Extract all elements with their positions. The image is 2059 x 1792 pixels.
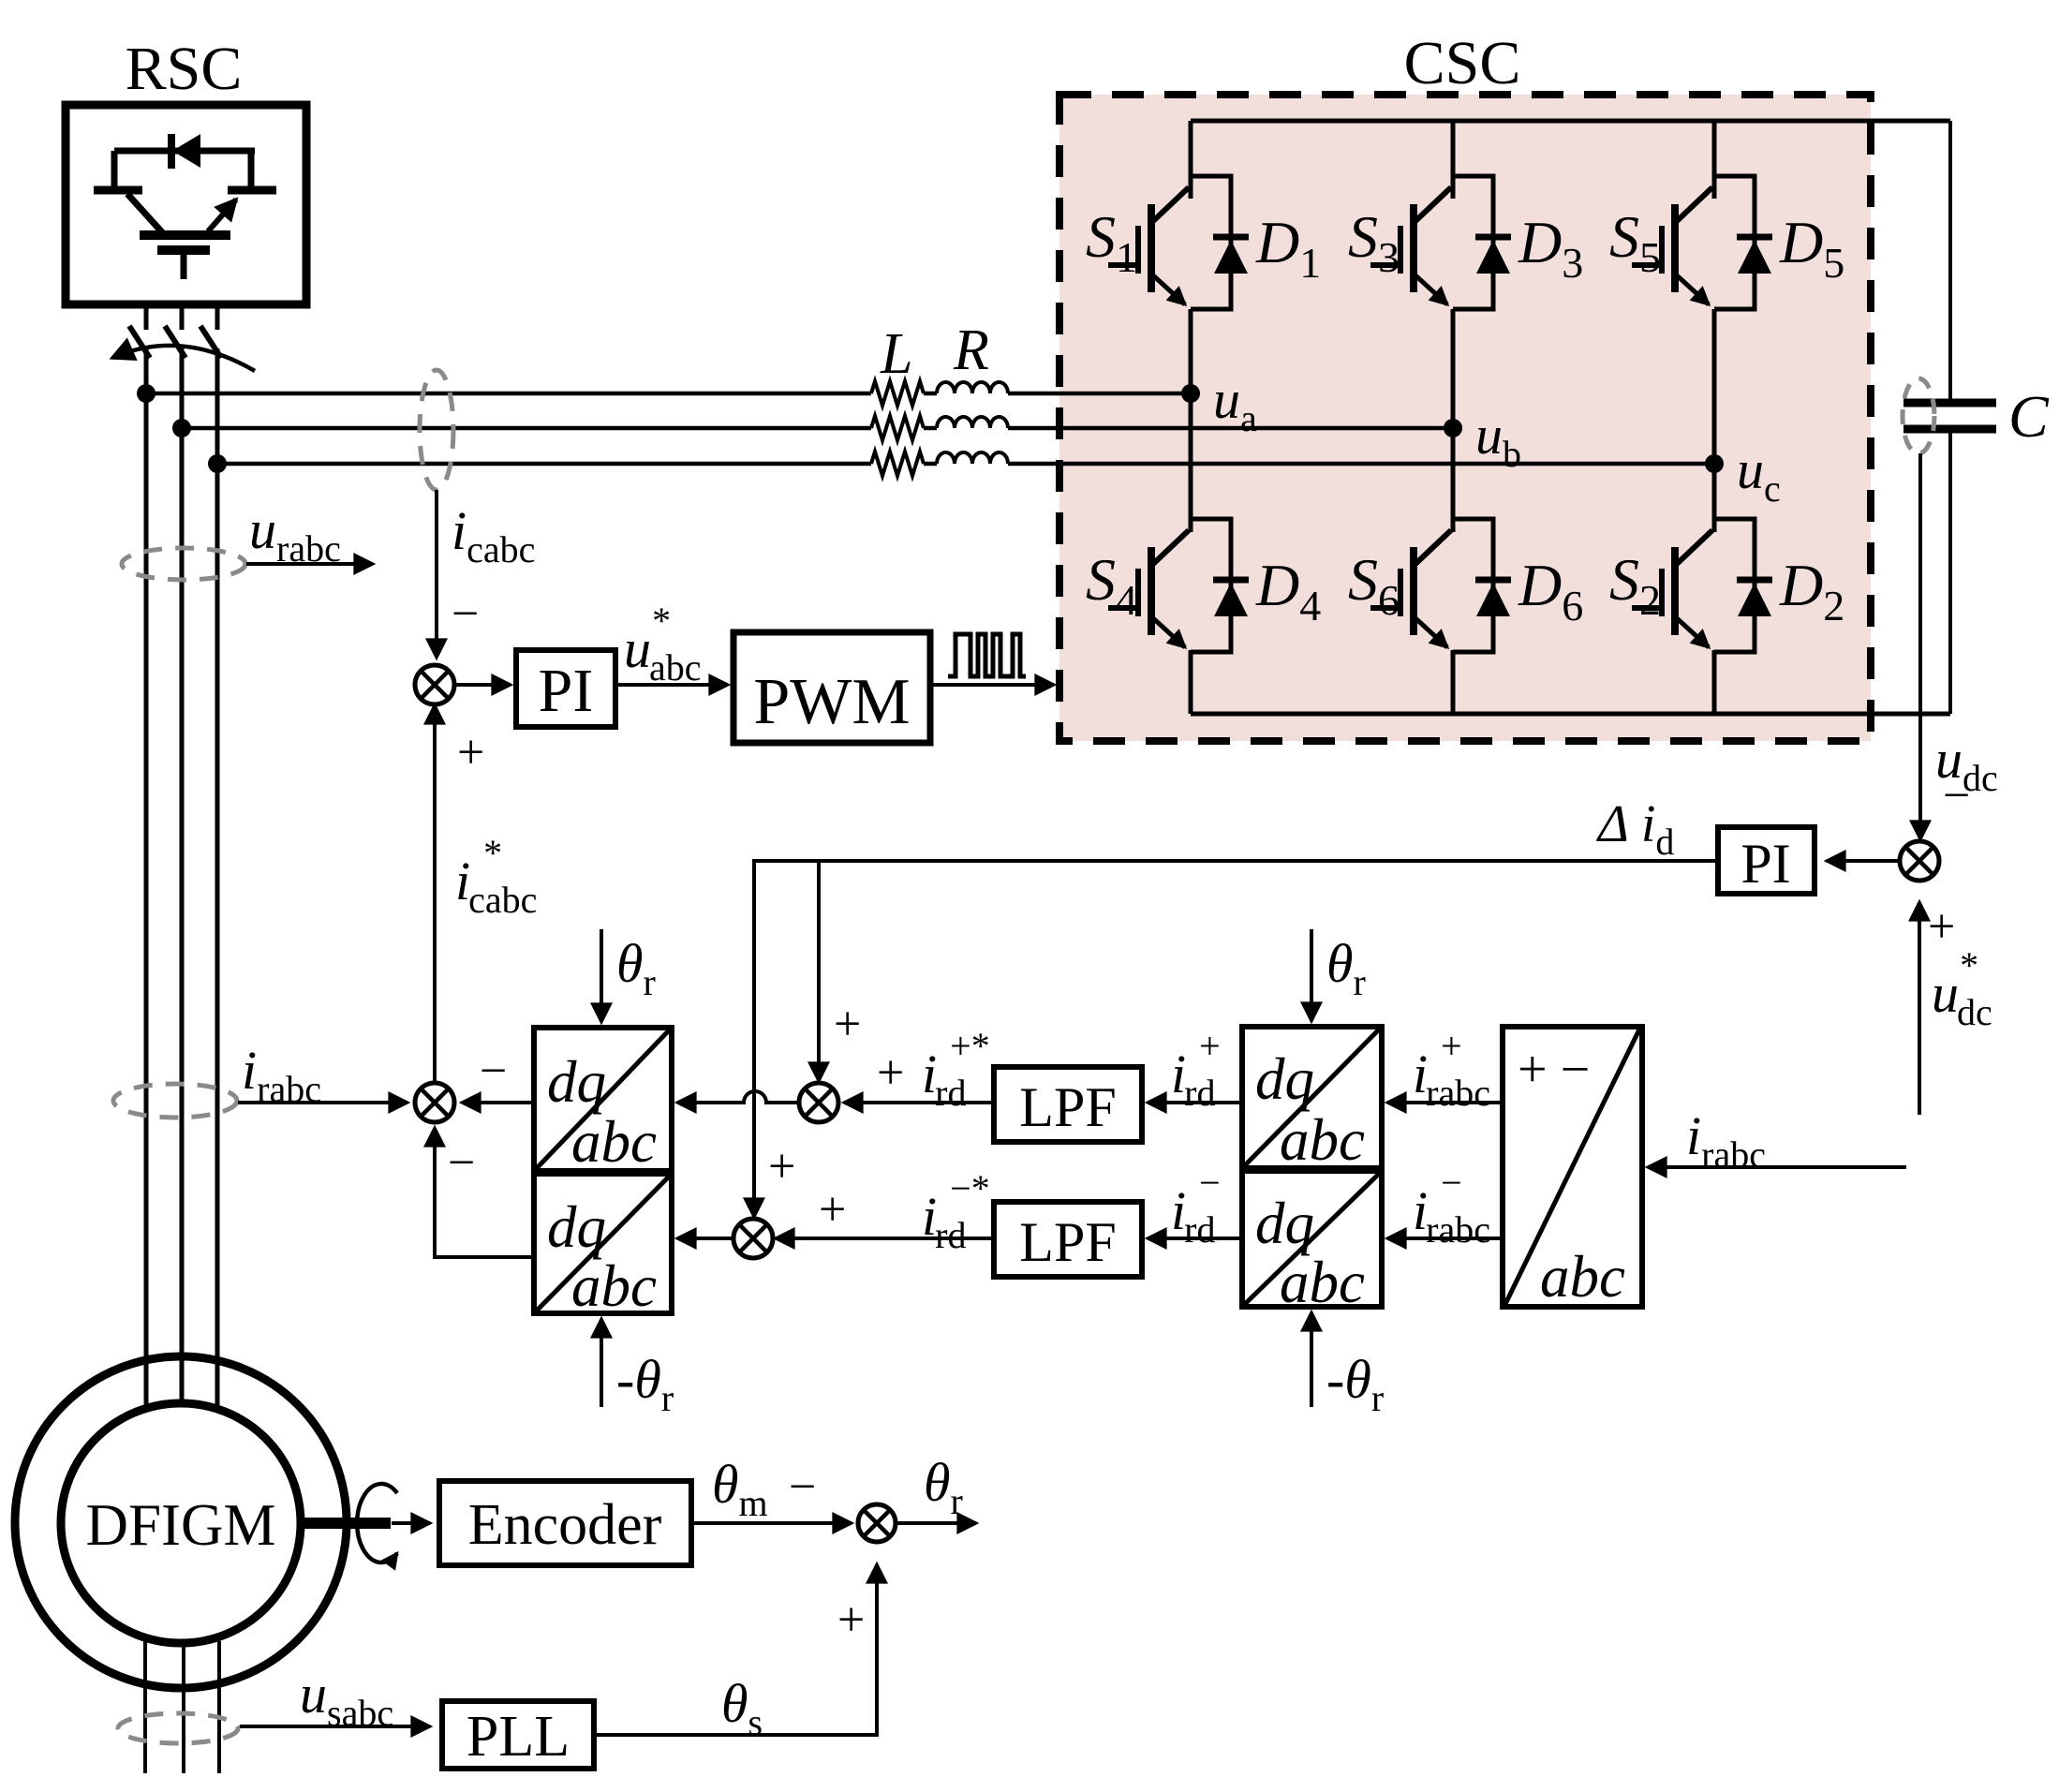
svg-text:*: * [483,832,502,874]
svg-text:+: + [877,1046,904,1100]
PWM box [733,632,930,743]
sequence separation block +-/abc [1503,1027,1642,1307]
node u_b [1444,419,1462,437]
wire u*_dc up into summing junction [1918,902,1921,1115]
wire i*_cabc rising to summing junction [433,705,437,1083]
svg-text:+ −: + − [1518,1041,1590,1099]
wire PWM to CSC [930,683,1054,687]
svg-text:+: + [819,1183,846,1237]
theta_r input arrow (left stack) [600,929,603,1022]
freewheeling diode D2 [1714,519,1772,652]
summing junction rotor current [415,1083,454,1122]
svg-text:L: L [880,322,912,386]
wire theta_r output [896,1521,976,1525]
svg-text:−: − [452,587,479,641]
current sensor i_cabc (dashed ellipse) [420,370,453,490]
wire phase c with inductor L and resistor R [217,462,871,467]
LPF box (negative) [994,1202,1142,1277]
svg-text:dq: dq [547,1049,606,1115]
LPF box (positive) [994,1067,1142,1142]
svg-text:−: − [1943,769,1970,822]
-theta_r input arrow (right stack) [1310,1312,1313,1407]
freewheeling diode D1 [1191,176,1249,309]
svg-text:DFIGM: DFIGM [85,1492,275,1558]
Encoder box [439,1481,691,1565]
svg-text:dq: dq [1255,1191,1314,1256]
IGBT S5 [1632,187,1712,304]
wire DC link right branch [1948,121,1952,403]
svg-text:abc: abc [1280,1107,1365,1173]
PI controller box (dc loop) [1718,827,1815,894]
svg-text:abc: abc [571,1253,657,1319]
node phase b junction [172,419,191,437]
stator wires below machine [143,1641,147,1773]
svg-text:−: − [480,1044,507,1098]
svg-text:RSC: RSC [126,35,243,103]
dq/abc block (sequence decompose, +) [1242,1027,1382,1168]
svg-text:−*: −* [950,1167,990,1209]
wire dq-right1 to LPF1 [1148,1101,1242,1104]
IGBT S1 [1108,187,1189,304]
wire rotor phase b (vertical) [180,304,185,330]
summing junction negative-seq reference [733,1219,773,1258]
voltage sensor u_sabc (dashed ellipse) [118,1713,238,1743]
voltage sensor u_dc (dashed ellipse) [1903,378,1934,453]
summing junction theta_r [858,1504,896,1542]
svg-text:dq: dq [1255,1046,1314,1112]
svg-text:−: − [1441,1162,1462,1204]
wire shaft to encoder [392,1521,430,1525]
converter leg c vertical [1712,121,1717,199]
svg-text:CSC: CSC [1404,29,1521,97]
PI controller box (current loop) [516,650,615,727]
wire dq2 output loops to left sum [435,1128,534,1257]
svg-text:abc: abc [1280,1250,1365,1315]
slip-ring hatch marks [129,326,150,358]
svg-text:+: + [457,726,484,779]
IGBT S2 [1632,530,1712,647]
wire LPF2 to neg sum [776,1237,994,1240]
svg-text:+: + [837,1593,865,1647]
wire i_rabc to left summing junction [238,1101,407,1104]
voltage sensor u_rabc (dashed ellipse) [122,548,245,580]
wire neg sum to dq2 [677,1237,733,1240]
node u_c [1705,454,1724,473]
svg-text:PLL: PLL [467,1705,570,1769]
wire sum to PI [454,683,511,687]
node phase c junction [208,454,227,473]
DC top bus [1191,119,1950,124]
wire dq-right2 to LPF2 [1148,1237,1242,1240]
IGBT S4 [1108,530,1189,647]
wire +-abc to dq-right2 [1387,1237,1503,1240]
gate pulse symbol [948,634,1026,676]
wire pos sum to dq1 with hop [677,1091,799,1103]
wire delta i_d branch to positive-seq sum [817,861,821,1081]
theta_r input arrow (right stack) [1310,929,1313,1021]
svg-text:abc: abc [1540,1244,1625,1310]
summing junction current control [415,665,454,704]
svg-text:*: * [1960,944,1978,986]
dq/abc block (sequence decompose, -) [1242,1171,1382,1307]
capacitor C [1903,399,1996,407]
svg-text:PI: PI [1741,833,1790,895]
wire phase a with inductor L and resistor R [146,392,871,396]
wire sum to PI (dc loop) [1827,859,1900,863]
converter leg b vertical [1451,121,1456,199]
svg-text:dq: dq [547,1194,606,1260]
PLL box [442,1701,594,1769]
svg-text:LPF: LPF [1019,1211,1116,1273]
freewheeling diode D4 [1191,519,1249,652]
node u_a [1181,384,1200,403]
svg-text:abc: abc [571,1109,657,1175]
node phase a junction [137,384,156,403]
arrow u_rabc [246,562,373,566]
shaft [301,1518,391,1529]
svg-text:+: + [768,1140,795,1193]
freewheeling diode D6 [1453,519,1511,652]
wire encoder theta_m to sum [691,1521,852,1525]
svg-text:*: * [652,600,671,642]
wire +-abc to dq-right1 [1387,1101,1503,1104]
wire i_rabc into +-abc block [1648,1165,1906,1169]
IGBT S6 [1370,530,1451,647]
svg-text:PWM: PWM [753,666,910,738]
svg-text:+*: +* [950,1025,990,1067]
rotation arrow over rotor wires [112,346,255,371]
wire LPF1 to pos sum [844,1101,994,1104]
summing junction positive-seq reference [799,1083,838,1122]
svg-text:+: + [834,998,861,1051]
-theta_r input arrow (left stack) [600,1319,603,1407]
svg-text:LPF: LPF [1019,1076,1116,1138]
svg-text:−: − [1199,1162,1221,1204]
wire theta_s from PLL to sum [594,1564,877,1735]
freewheeling diode D5 [1714,176,1772,309]
svg-text:+: + [1928,900,1955,954]
DFIGM stator circle [15,1356,347,1688]
wire rotor phase a (vertical) [144,304,149,330]
svg-text:C: C [2008,383,2050,450]
IGBT S3 [1370,187,1451,304]
svg-text:Encoder: Encoder [468,1493,662,1557]
freewheeling diode D3 [1453,176,1511,309]
thyristor switch inside RSC [94,190,276,279]
summing junction DC voltage [1900,841,1939,881]
DC bottom bus [1191,712,1950,717]
wire dq1 output to left sum [462,1101,534,1104]
diode inside RSC [114,134,255,190]
rotation symbol on shaft [357,1484,397,1562]
DFIGM rotor circle [61,1403,301,1643]
current sensor i_rabc (dashed ellipse) [113,1084,237,1118]
wire u_sabc to PLL [240,1725,430,1728]
wire phase b with inductor L and resistor R [182,426,871,431]
wire rotor phase c (vertical) [215,304,220,330]
svg-text:−: − [448,1136,475,1190]
converter leg a vertical [1189,121,1193,199]
dq/abc transform block (negative, -theta_r) [534,1174,672,1313]
wire u_dc measurement down [1918,453,1922,839]
CSC converter dashed boundary with shaded fill [1059,95,1871,741]
RSC converter box [66,105,306,304]
wire PI to PWM [615,683,728,687]
svg-text:+: + [1199,1025,1221,1067]
wire i_cabc down to summing junction [435,490,438,658]
svg-text:−: − [789,1460,816,1514]
svg-text:R: R [953,318,989,382]
dq/abc transform block (positive, +theta_r) [534,1028,672,1171]
svg-text:+: + [1441,1025,1462,1067]
wire delta i_d distribution [754,861,1718,1217]
svg-text:PI: PI [539,657,594,725]
